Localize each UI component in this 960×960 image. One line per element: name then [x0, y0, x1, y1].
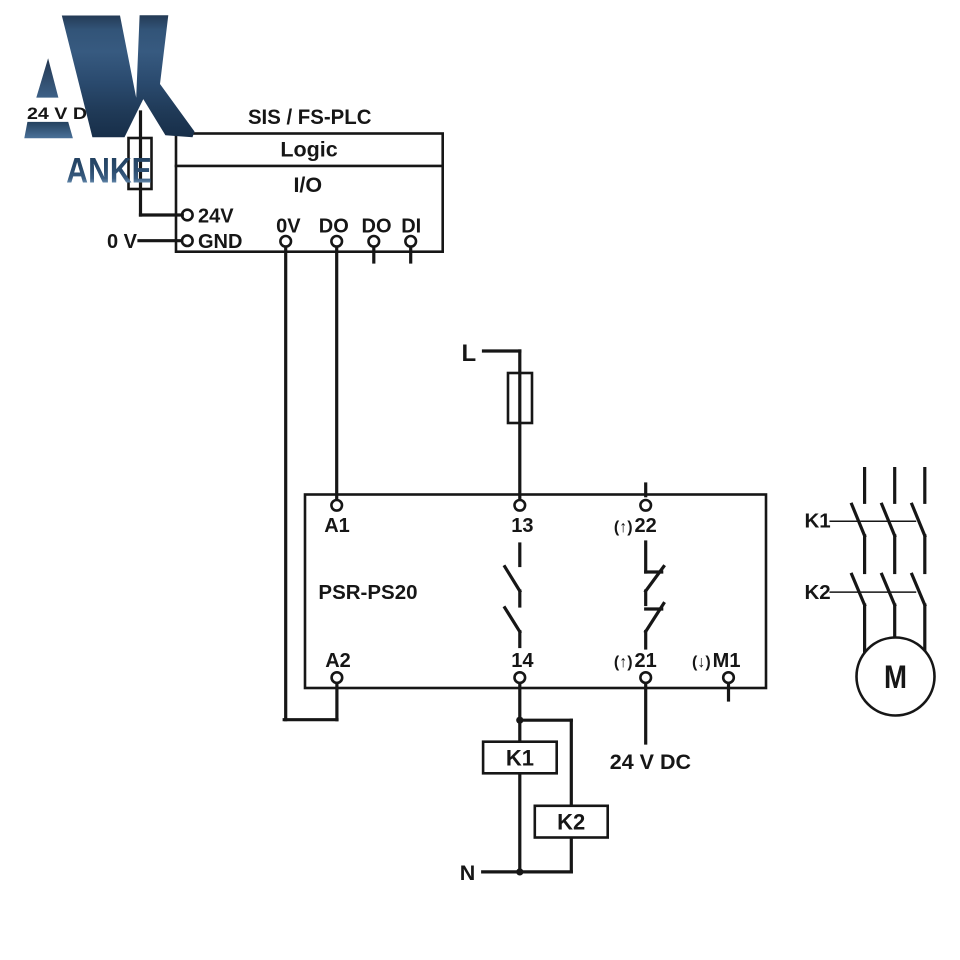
svg-text:K2: K2: [557, 809, 585, 834]
svg-text:A1: A1: [324, 515, 350, 537]
svg-text:I/O: I/O: [293, 173, 322, 197]
svg-text:DI: DI: [401, 216, 421, 238]
svg-text:(↑)21: (↑)21: [614, 650, 657, 672]
svg-text:DO: DO: [319, 216, 349, 238]
svg-text:0V: 0V: [276, 216, 301, 238]
svg-text:DO: DO: [362, 216, 392, 238]
svg-text:SIS / FS-PLC: SIS / FS-PLC: [248, 105, 372, 129]
svg-text:(↓)M1: (↓)M1: [692, 650, 740, 672]
svg-text:K1: K1: [805, 510, 831, 533]
svg-text:24V: 24V: [198, 205, 234, 227]
svg-text:24 V D: 24 V D: [27, 104, 87, 123]
svg-text:GND: GND: [198, 231, 242, 253]
svg-text:ANKE: ANKE: [66, 151, 152, 190]
svg-text:N: N: [460, 861, 476, 885]
svg-text:0 V: 0 V: [107, 231, 138, 253]
svg-text:L: L: [462, 340, 477, 367]
svg-text:Logic: Logic: [280, 137, 337, 161]
svg-text:(↑)22: (↑)22: [614, 515, 657, 537]
svg-text:K1: K1: [506, 745, 534, 770]
svg-text:13: 13: [511, 515, 533, 537]
svg-text:24 V DC: 24 V DC: [610, 750, 691, 774]
svg-text:M: M: [884, 659, 907, 695]
svg-text:14: 14: [511, 650, 534, 672]
svg-text:K2: K2: [805, 581, 831, 604]
svg-text:A2: A2: [325, 650, 351, 672]
svg-text:PSR-PS20: PSR-PS20: [318, 581, 417, 604]
